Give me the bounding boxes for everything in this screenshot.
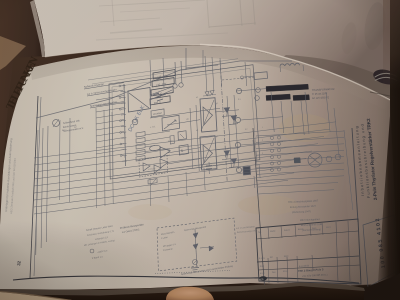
test circuit dashed box [157,218,237,271]
voltage box 24V [151,87,173,97]
title block row line 2 [257,256,359,262]
op-amp N3 [154,165,161,173]
dashed feed line [222,77,254,80]
diode D1 [205,92,209,96]
right edge darkness [377,0,400,300]
title block row line 1 [256,231,358,239]
transformer terminal L2 [255,96,260,101]
terminal circle K1 [236,88,241,93]
age stain 3 [128,204,172,220]
nested boundary verticals [36,130,38,255]
transformer T1 core bar [266,84,309,91]
thyristor V2 [231,116,237,121]
test ground [191,267,199,270]
thyristor field wires [227,96,231,168]
age stain 2 [238,195,298,215]
module boundary 2 [253,128,264,285]
flipped previous page [34,0,390,100]
rail droppers [95,108,98,208]
card boundary box inner [112,68,256,176]
right section verticals [344,130,353,210]
under pages grey strip [0,283,365,296]
test lamp [193,260,198,265]
test diode D5 [209,246,214,251]
thyristor V5 [231,116,237,121]
small block H1 [178,131,186,140]
drawing frame left border [30,96,38,278]
fold bright rim right [200,45,390,101]
thyristor V4 [231,159,237,164]
bottom darkness [0,283,400,300]
wire bus mid [150,108,220,118]
ghost print on flipped page [96,0,256,40]
module boundary dash-dot [220,60,227,182]
resistor R1 [136,132,145,137]
card boundary box [109,65,260,179]
terminal circle K3 [236,167,241,172]
aux contact box [294,158,301,163]
terminal circles column [277,136,280,139]
fold shadow [30,46,390,112]
AC distribution lines [256,131,344,136]
page stack edge shadow [0,291,72,300]
drawing frame top border [36,61,292,118]
page right curl shade [340,72,400,286]
connector X1 leads [96,96,124,101]
top drop wires [149,60,152,86]
drawing number box [363,215,399,287]
transformer T1 secondary bar left [266,94,290,100]
test wire [195,229,197,266]
connector X1 pin column [124,84,126,166]
resistor R7 [170,135,174,144]
legend item 1 circle [90,249,94,253]
resistor R4 [136,150,145,155]
page stack edge bottom-left [0,292,72,300]
title block col lines [268,227,269,239]
wire set 2 [145,131,170,135]
ramp generator block [162,115,180,131]
resistor R3 [136,144,145,149]
trim resistor R6 [148,179,157,184]
bottom-right table corner [364,273,400,300]
company logo mark [259,276,267,281]
resistor R5 [136,156,145,161]
transformer drop wires [271,92,274,132]
op-amp N4 [160,159,168,168]
op-amp N1 [160,147,170,158]
finger [166,287,214,300]
capacitor C1 oval [149,145,161,152]
flip underside shadow [283,55,390,100]
frame corner marks [186,65,218,68]
top-left table corner [0,0,45,225]
regulator dashed box [139,156,168,178]
top bus line [88,59,238,80]
drawing frame bottom border [13,276,359,283]
ghost smudge right 2 [339,21,358,55]
label box [151,109,164,117]
transformer T1 secondary bar right [293,95,310,101]
AEG-TELEFUNKEN spine lettering [4,55,41,112]
bus rails [34,122,336,158]
voltage box +15V [153,70,175,80]
thyristor V3 [224,151,230,156]
bottom-left corner shade [0,220,170,300]
wire to fuses [174,62,177,84]
diode D2 [210,91,214,95]
transformer primary winding loops [280,64,285,66]
fuse F3 [254,72,268,80]
transformer terminal L1 [256,88,261,93]
top page left edge highlight [30,0,45,57]
potentiometer P1 [53,120,60,127]
fuse F1 top circle [173,84,177,88]
rail-grid jogs [252,140,255,152]
resistor R2 [136,138,145,143]
voltage box ref [150,96,170,105]
publisher logo ellipse [372,67,400,87]
terminal circle P2 [132,119,138,125]
thyristor V1 [224,108,230,113]
fold bright rim left [45,45,200,58]
age stain 1 [279,114,331,142]
snubber resistor R8 [243,166,251,175]
title block row line 3 [258,265,360,270]
ghost smudge right 1 [362,1,388,51]
motor meter M1 [308,153,322,167]
test diode D3 [193,233,198,238]
terminal circle M2 [326,156,332,162]
drawing frame right border [352,128,358,222]
terminal circle M3 [335,154,341,160]
terminal circle K2 [235,117,240,122]
title block outline [256,219,361,284]
pulse module A1 [200,98,217,132]
gate block G1 [179,145,188,155]
power supply block U1 [128,88,151,113]
power block hatch arrows [153,93,159,95]
capacitor C2 [206,165,212,168]
test diode D4 [193,244,198,249]
op-amp N2 [143,163,150,171]
fuse F2 top circle [179,83,183,87]
voltage box -15V [152,78,174,88]
table light patch [0,36,26,70]
right edge top soften [383,0,400,90]
page top-right edge line [370,92,400,98]
pulse module A2 [200,136,217,170]
